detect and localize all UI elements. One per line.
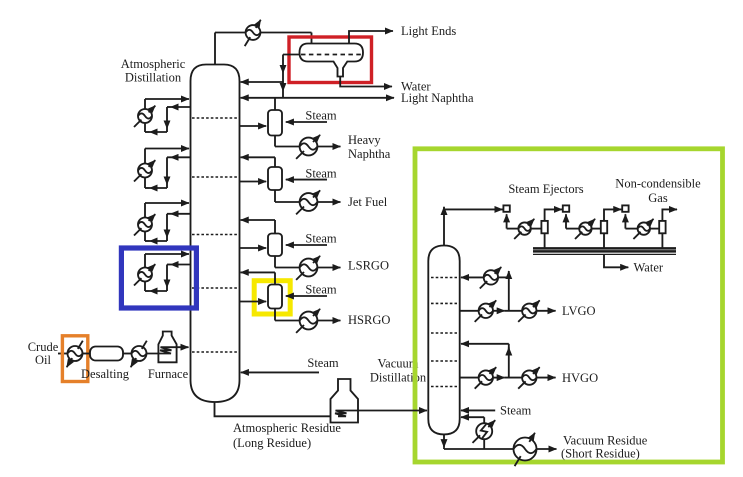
svg-text:Distillation: Distillation [125, 71, 182, 85]
svg-text:Jet Fuel: Jet Fuel [348, 195, 388, 209]
wire vacuum column bottoms [444, 434, 557, 449]
wire condenser 3 overhead [662, 209, 677, 221]
wire exchanger 2 to furnace [147, 353, 164, 355]
svg-text:LVGO: LVGO [562, 304, 596, 318]
side stripper 4 vessel [268, 285, 282, 309]
pump-around exchanger 3 [134, 214, 155, 235]
inter-condenser cooler 2 [575, 219, 595, 239]
svg-text:Light Ends: Light Ends [401, 24, 456, 38]
pump-around exchanger 1 [134, 106, 155, 127]
orange box highlight [62, 336, 87, 382]
LVGO exchanger A [475, 300, 497, 322]
steam ejector 2 [563, 205, 569, 211]
wire furnace to column feed [166, 346, 189, 348]
wire desalter to exchanger 2 [123, 353, 132, 355]
pump-around exchanger 4 [134, 264, 155, 285]
svg-text:Non-condensible: Non-condensible [615, 177, 701, 191]
yellow box highlight [254, 281, 290, 314]
inter-condenser cooler 1 [514, 219, 534, 239]
svg-text:Steam: Steam [305, 109, 337, 123]
side stripper 1 feed from column [240, 125, 266, 127]
svg-text:Crude: Crude [28, 340, 59, 354]
wire drum liquid down to naphtha header [282, 82, 284, 98]
condenser pot 1 drain [544, 233, 546, 248]
steam line to stripper 3 [286, 244, 327, 246]
side stripper 2 vapor return [241, 157, 275, 167]
LVGO return exchanger [480, 267, 502, 289]
LVGO pump-around return [461, 271, 509, 311]
side stripper 1 bottoms line [275, 136, 341, 147]
wire light naphtha header [241, 97, 394, 99]
svg-text:Water: Water [401, 80, 431, 94]
quench exchanger [473, 420, 496, 443]
steam ejector 1 [503, 205, 509, 211]
wire exchanger to desalter [83, 353, 91, 355]
svg-text:(Long Residue): (Long Residue) [233, 436, 311, 450]
svg-text:Steam: Steam [305, 166, 337, 180]
pump-around circuit 2 piping [145, 149, 190, 189]
crude preheat exchanger 1 [67, 341, 83, 368]
column trays (dashed) [192, 118, 238, 352]
blue box highlight [121, 248, 196, 308]
wire water drain [604, 254, 628, 267]
svg-text:Heavy: Heavy [348, 133, 381, 147]
wire crude oil feed [58, 353, 68, 355]
wire reflux from drum to column [241, 55, 300, 83]
steam line to stripper 4 [286, 295, 327, 297]
product cooler 1 [296, 135, 320, 159]
steam line to stripper 1 [286, 121, 327, 123]
side stripper 3 feed from column [240, 247, 266, 249]
svg-text:Distillation: Distillation [370, 371, 427, 385]
barometric seal lines [533, 248, 676, 254]
condenser pot 3 drain [661, 233, 663, 248]
svg-text:Atmospheric: Atmospheric [121, 57, 186, 71]
wire atmospheric residue to vacuum furnace [215, 402, 331, 416]
side stripper 4 vapor return [241, 272, 275, 284]
furnace heating coil zigzag [160, 347, 172, 353]
svg-text:(Short Residue): (Short Residue) [561, 447, 640, 461]
vacuum furnace coil zigzag [335, 411, 347, 417]
wire vacuum overhead to ejectors [444, 207, 503, 246]
HVGO draw line [460, 377, 556, 379]
steam line to vacuum column [461, 409, 495, 411]
condenser pot 3 [659, 221, 665, 233]
svg-text:Furnace: Furnace [148, 367, 189, 381]
wire vacuum furnace to vacuum column [342, 410, 427, 412]
ejector 3 piping [625, 214, 659, 228]
svg-text:HSRGO: HSRGO [348, 313, 390, 327]
side stripper 3 bottoms line [275, 256, 341, 268]
crude preheat exchanger 2 [131, 341, 147, 368]
condenser pot 2 [601, 221, 607, 233]
product cooler 3 [296, 256, 320, 280]
wire condenser 2 overhead [604, 209, 621, 221]
svg-text:Steam Ejectors: Steam Ejectors [508, 182, 583, 196]
pump-around circuit 4 piping [145, 254, 190, 291]
side stripper 4 bottoms line [275, 309, 341, 321]
red box highlight [289, 37, 372, 83]
HVGO pump-around return [461, 344, 509, 378]
vacuum residue cooler [514, 433, 537, 466]
side stripper 3 vapor return [241, 220, 275, 234]
vacuum furnace [331, 379, 359, 423]
pump-around circuit 3 piping [145, 203, 190, 241]
side stripper 1 vapor return [274, 98, 276, 110]
wire light ends from drum [349, 31, 393, 44]
wire column overhead to condenser [215, 33, 312, 65]
svg-text:Oil: Oil [35, 353, 52, 367]
HVGO exchanger A [475, 367, 497, 389]
pump-around circuit 1 piping [145, 99, 190, 132]
vacuum column trays (dashed) [431, 278, 457, 387]
ejector 2 piping [566, 214, 601, 228]
steam line to atmospheric column bottom [241, 371, 319, 373]
svg-text:Water: Water [634, 261, 664, 275]
side stripper 4 feed from column [240, 301, 266, 303]
pump-around exchanger 2 [134, 160, 155, 181]
svg-text:LSRGO: LSRGO [348, 259, 389, 273]
LVGO draw line [460, 310, 556, 312]
svg-text:Gas: Gas [648, 191, 668, 205]
side stripper 3 vessel [268, 234, 282, 257]
product cooler 2 [296, 190, 320, 214]
svg-text:Steam: Steam [305, 283, 337, 297]
product cooler 4 [296, 309, 320, 333]
green box highlight [415, 149, 723, 462]
condenser pot 1 [541, 221, 547, 233]
vacuum distillation column [428, 246, 459, 435]
vacuum quench return [461, 417, 484, 449]
HVGO exchanger B [518, 367, 540, 389]
svg-text:Atmospheric Residue: Atmospheric Residue [233, 421, 341, 435]
condenser pot 2 drain [603, 233, 605, 248]
svg-text:Desalting: Desalting [81, 367, 130, 381]
svg-text:Steam: Steam [305, 232, 337, 246]
steam line to stripper 2 [286, 179, 327, 181]
side stripper 2 bottoms line [275, 190, 341, 202]
reflux drum with water boot [300, 44, 364, 77]
svg-text:Naphtha: Naphtha [348, 147, 391, 161]
side stripper 1 vessel [268, 110, 282, 136]
atmospheric distillation column [191, 65, 240, 403]
inter-condenser cooler 3 [633, 219, 653, 239]
svg-text:Steam: Steam [307, 356, 339, 370]
svg-text:Steam: Steam [500, 404, 532, 418]
side stripper 2 vessel [268, 167, 282, 190]
svg-text:Vacuum Residue: Vacuum Residue [563, 434, 648, 448]
svg-text:Vacuum: Vacuum [378, 357, 419, 371]
LVGO exchanger B [518, 300, 540, 322]
svg-text:HVGO: HVGO [562, 371, 598, 385]
ejector 1 piping [507, 214, 542, 228]
steam ejector 3 [622, 205, 628, 211]
wire water from drum boot [340, 77, 392, 87]
wire condenser 1 overhead [545, 209, 562, 221]
side stripper 2 feed from column [240, 181, 266, 183]
atmospheric furnace [158, 332, 176, 363]
desalter vessel [90, 347, 123, 361]
overhead condenser exchanger [245, 20, 261, 46]
